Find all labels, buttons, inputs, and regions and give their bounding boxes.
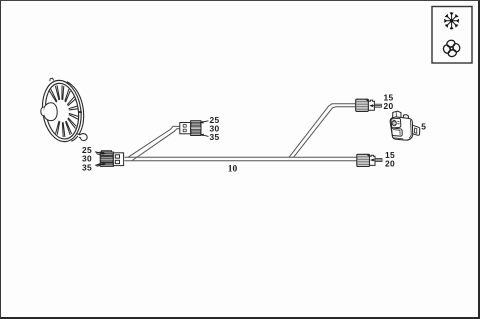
fan rim top tab [50,78,54,81]
connector C2 dark half [191,121,201,136]
svg-text:35: 35 [82,162,92,172]
svg-text:5: 5 [421,121,426,131]
connector C1 white housing [113,153,123,166]
svg-text:35: 35 [210,132,220,142]
connector C4 collar [370,155,376,165]
connector C1 terminal pins [97,152,101,155]
svg-text:20: 20 [384,101,394,111]
connector C3 body [356,99,369,111]
connector C4 pin [375,159,382,162]
arrow to C3 [369,104,381,107]
svg-text:20: 20 [385,159,395,169]
icon fan rotor [443,39,461,57]
fan rim right tab [78,111,81,112]
wire: harness main horizontal run [125,157,357,161]
wire: branch to middle connector [128,126,180,160]
connector C2 white housing [180,123,191,134]
connector C1 dark half [100,151,113,167]
arrow from 35 [95,163,106,166]
svg-text:10: 10 [228,165,238,175]
arrow to C4 [370,159,382,162]
wire: branch to top right connector [289,104,357,158]
fan motor hub [41,103,57,121]
relay unit 5 top tabs [393,111,409,119]
icon box border [432,7,472,64]
relay unit 5 body [390,117,413,140]
arrow from 25 middle [200,121,209,124]
connector C3 pin [374,104,381,107]
fan shroud depth rim [67,82,84,141]
icon snowflake [445,13,459,29]
connector C4 body [357,154,370,166]
connector C3 collar [368,100,374,110]
fan blades [50,85,79,137]
relay unit 5 mounting ear [412,125,420,136]
arrow from 35 middle [200,134,209,137]
fan shroud outer ring [39,78,85,144]
arrow from 25 [95,152,106,155]
relay unit 5 socket openings [391,118,402,136]
fan bottom bracket [76,134,87,141]
